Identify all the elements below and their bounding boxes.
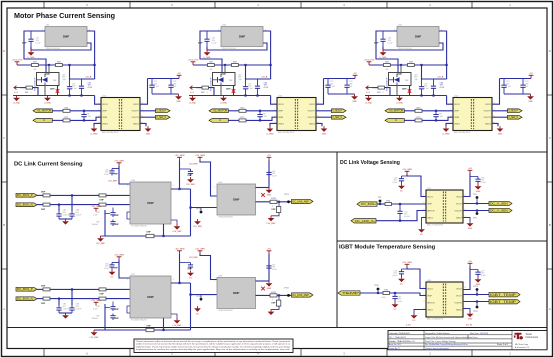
wire filter caps join row1	[59, 218, 72, 220]
op-amp U19 (DNP)	[214, 275, 258, 312]
net port U2_SEN_P	[332, 109, 347, 113]
section divider dclink-current right edge	[336, 152, 338, 328]
isolated amplifier U13	[274, 95, 318, 134]
svg-text:VOUT: VOUT	[456, 203, 463, 205]
wire VOUTN to port	[492, 116, 508, 118]
svg-text:+5V_SEN: +5V_SEN	[195, 155, 205, 157]
wire U11 pin1 left leg	[376, 31, 398, 73]
svg-text:VOUTN: VOUTN	[308, 117, 316, 119]
net port MOTOR_N1	[33, 119, 52, 123]
svg-text:VDD1: VDD1	[454, 104, 460, 106]
wire input N row1	[37, 204, 43, 206]
wire +5V rail right	[324, 78, 356, 80]
svg-text:SMBJ5339B-TP: SMBJ5339B-TP	[386, 77, 388, 91]
wire sense feed to rail	[33, 88, 39, 96]
svg-text:L5V_REF: L5V_REF	[267, 223, 276, 225]
isolated supply module U11 (DNP)	[394, 24, 441, 50]
svg-text:U_SEN_P: U_SEN_P	[509, 110, 519, 113]
svg-text:0: 0	[207, 92, 208, 94]
net port DC_LINK_V_SEN	[489, 201, 512, 205]
svg-text:DNP: DNP	[50, 89, 55, 91]
net port DC_LINK_V_SEN_N	[489, 208, 512, 212]
svg-text:1: 1	[274, 103, 275, 105]
wire opamp V+ stub row1	[256, 187, 270, 189]
ground +5V chain row1	[266, 188, 273, 197]
test point TP4	[473, 194, 478, 199]
ground U_GND under C32	[203, 50, 211, 59]
svg-text:4.7uF: 4.7uF	[88, 87, 94, 89]
power flag +VCC_FL2	[188, 60, 200, 65]
ground feedback row1	[267, 216, 276, 225]
svg-text:0.1uF: 0.1uF	[330, 86, 336, 88]
wire opamp out row1	[256, 201, 292, 203]
svg-text:DC_BUS_P: DC_BUS_P	[17, 194, 33, 197]
svg-text:DNP: DNP	[147, 326, 152, 328]
svg-text:DNP: DNP	[188, 175, 193, 177]
wire into opamp row2	[191, 294, 218, 296]
svg-text:L5V_REF: L5V_REF	[108, 181, 118, 183]
wire bottom rail	[365, 95, 447, 97]
wire R to VINP	[70, 110, 101, 112]
svg-text:0.1uF: 0.1uF	[86, 116, 92, 118]
svg-text:+5V_A: +5V_A	[85, 76, 92, 79]
svg-text:DNP: DNP	[147, 232, 152, 234]
ground under opamp in row2	[194, 306, 201, 315]
svg-text:GND: GND	[322, 134, 327, 136]
ground GND right caps	[351, 94, 358, 103]
value opamp bypass cap row2	[272, 265, 277, 271]
junction rail/caps	[244, 64, 246, 66]
svg-text:DNP: DNP	[22, 43, 27, 45]
test point TP21	[284, 194, 290, 203]
svg-text:Instruments: Instruments	[526, 336, 539, 339]
resistor R63 input P	[415, 107, 422, 112]
isolated supply module U9 (DNP)	[42, 24, 89, 50]
power flag +5V_SEN dclv	[402, 169, 412, 174]
svg-text:GND: GND	[498, 134, 503, 136]
svg-text:+5V: +5V	[177, 73, 181, 75]
junction bottom rail cap1	[420, 94, 422, 96]
svg-text:VINP: VINP	[427, 295, 432, 297]
power flag +5V dclv	[468, 168, 473, 173]
junction filter P row2	[71, 288, 73, 290]
svg-text:+5V: +5V	[267, 249, 271, 251]
ground L5V_REF row2	[90, 330, 99, 339]
junction amp drop row2	[162, 329, 164, 331]
svg-text:4.7uF: 4.7uF	[440, 87, 446, 89]
value C91	[86, 114, 92, 118]
resistor R72 input N	[239, 117, 246, 122]
resistor R101 gain P	[99, 194, 106, 197]
wire TP4 stub	[476, 198, 478, 204]
value C82	[398, 297, 404, 303]
wire D2 NC pin stub	[233, 86, 235, 96]
svg-text:U: U	[395, 119, 397, 122]
wire GND1 to ground	[446, 123, 453, 126]
capacitor C103 decoupling	[501, 79, 511, 95]
svg-text:AMC1300BDWVR: AMC1300BDWVR	[102, 131, 119, 134]
junction bus TVS tap U10	[224, 64, 226, 66]
ground DC GND1 igbt	[411, 313, 418, 322]
svg-text:U_SEN_P: U_SEN_P	[333, 110, 343, 113]
resistor R31 on rail	[32, 62, 39, 67]
net port DC_LINK_N row2	[16, 297, 37, 301]
capacitor C32 (DNP)	[204, 34, 209, 48]
capacitor C72	[255, 79, 260, 96]
junction rail/caps	[420, 64, 422, 66]
svg-text:L5V_REF: L5V_REF	[96, 243, 105, 245]
svg-text:+5V_SEN: +5V_SEN	[402, 169, 412, 171]
ground U_GND under U13	[266, 126, 274, 135]
svg-text:U_GND: U_GND	[203, 57, 211, 59]
junction bus TVS tap U9	[48, 64, 50, 66]
wire D2 anode to bottom rail	[220, 83, 222, 96]
capacitor Cref2 (DNP) row2	[110, 314, 115, 321]
wire TP20 stub	[377, 289, 379, 293]
svg-text:L5V_REF: L5V_REF	[186, 184, 195, 186]
junction opamp in row1	[189, 206, 191, 208]
ground under opamp in row1	[193, 219, 202, 228]
wire rail drop inline cap	[69, 65, 71, 80]
wire input P to R	[404, 110, 415, 112]
ground GND under C77	[475, 277, 482, 286]
resistor R41 on rail	[56, 62, 63, 67]
svg-text:VOUTP: VOUTP	[484, 111, 492, 113]
svg-text:VDD1: VDD1	[427, 196, 433, 198]
wire cap tap r2 row1	[180, 168, 191, 170]
svg-text:0.1uF: 0.1uF	[93, 308, 99, 310]
wire +5VA rail	[422, 78, 447, 80]
svg-text:U_GND: U_GND	[44, 103, 52, 105]
svg-text:GND2: GND2	[133, 123, 140, 125]
zener diode D1 box	[37, 73, 60, 86]
wire supply drop r2 row2	[179, 254, 181, 283]
resistor R71 input N	[63, 117, 70, 122]
net arrow U_V2 input flag	[190, 86, 196, 95]
test point TP20	[374, 285, 380, 290]
ground feedback row2	[268, 309, 275, 315]
capacitor C73	[431, 79, 436, 96]
wire DC_LINK_V to VINN	[376, 211, 426, 221]
svg-text:VINP: VINP	[278, 111, 283, 113]
iso amplifier U16 (DNP)	[127, 180, 173, 228]
ground GND under C81	[475, 184, 482, 193]
svg-text:and/or its licensors do not wa: and/or its licensors do not warrant that…	[136, 343, 290, 346]
ground GND GND2 igbt	[467, 312, 474, 321]
capacitor C62	[243, 80, 248, 96]
wire input N to R	[52, 119, 63, 121]
net port DC_LINK_P row1	[16, 193, 37, 197]
svg-text:Assy Var: 001: Assy Var: 001	[389, 343, 401, 346]
wire supply rail bus	[17, 64, 95, 66]
power flag +5V_SEN r2 row2	[175, 249, 185, 254]
wire feedback leg row1	[278, 202, 280, 207]
wire VDD2 up	[140, 79, 148, 105]
capacitor C86 row1	[69, 211, 74, 219]
svg-text:0.1uF: 0.1uF	[248, 88, 254, 90]
capacitor C84 row1	[56, 211, 61, 219]
ground GND under U14 right	[497, 126, 504, 135]
svg-text:VINP: VINP	[102, 111, 107, 113]
svg-text:GND: GND	[176, 101, 181, 103]
svg-text:0.1uF: 0.1uF	[481, 182, 487, 184]
svg-text:GND: GND	[267, 195, 272, 197]
capacitor C93 across inputs	[433, 111, 438, 121]
svg-text:DC Link Voltage Sensing: DC Link Voltage Sensing	[340, 160, 400, 166]
ground filter caps row1	[62, 219, 69, 225]
wire filter drop N row1	[58, 205, 60, 211]
power flag +5V_SEN row2a	[114, 255, 124, 260]
svg-text:VOUTN: VOUTN	[455, 210, 463, 212]
wire into amp N row2	[106, 298, 130, 300]
wire VOUTN to port	[316, 116, 332, 118]
junction opamp in row2	[189, 294, 191, 296]
wire U9 pin4 right leg	[87, 31, 95, 79]
svg-text:Orderable: TIDA-010025: Orderable: TIDA-010025	[389, 332, 410, 335]
test point TP22	[473, 306, 479, 313]
capacitor C101 decoupling	[149, 79, 159, 95]
svg-text:VDD2: VDD2	[309, 104, 315, 106]
svg-text:Number: TIDA-010025: Number: TIDA-010025	[389, 340, 408, 343]
svg-text:+5V_SEN: +5V_SEN	[195, 249, 205, 251]
wire TP5 stub	[476, 211, 478, 214]
svg-text:DNP: DNP	[41, 303, 46, 305]
svg-text:U_GND: U_GND	[27, 57, 35, 59]
svg-text:DNP: DNP	[233, 198, 239, 202]
svg-text:DC_LINK_AMP: DC_LINK_AMP	[293, 293, 309, 297]
svg-text:1: 1	[98, 103, 99, 105]
net arrow U_V3 input flag	[366, 86, 372, 95]
svg-text:U_GND: U_GND	[220, 103, 228, 105]
capacitor C82 igbt	[392, 293, 397, 302]
capacitor C31 (DNP)	[28, 34, 33, 48]
junction amp out row2	[178, 282, 180, 284]
ground U_GND under C33	[379, 50, 387, 59]
net port DC_LINK_V	[351, 219, 376, 223]
svg-text:+5V_SEN: +5V_SEN	[91, 300, 101, 302]
svg-text:DC_BUS_P: DC_BUS_P	[17, 288, 33, 291]
svg-text:DNP: DNP	[198, 43, 203, 45]
wire GND2 down	[140, 123, 146, 126]
svg-text:R53: R53	[377, 92, 380, 94]
wire filter drop P row1	[71, 195, 73, 211]
ground DC under C82	[392, 302, 399, 311]
resistor R81 (DNP)	[43, 194, 50, 197]
wire supply jog r3 row1	[200, 161, 217, 197]
wire ref bottom row2	[94, 329, 191, 331]
no-connect X D3	[408, 89, 412, 93]
wire TP22 stub	[476, 302, 478, 308]
svg-text:0.1uF: 0.1uF	[438, 116, 444, 118]
wire +5V drop row2	[268, 254, 270, 281]
svg-text:These instruments and/or its l: These instruments and/or its licensors d…	[136, 340, 290, 343]
svg-text:+5V_SEN: +5V_SEN	[114, 161, 124, 163]
svg-text:0.1uF: 0.1uF	[424, 88, 430, 90]
svg-text:0: 0	[272, 299, 273, 301]
wire +5V_SEN drop row1a	[119, 166, 130, 184]
value C33	[388, 38, 394, 45]
wire R to VINN	[70, 117, 101, 120]
svg-text:4: 4	[173, 185, 174, 187]
wire D1 anode to bottom rail	[44, 83, 46, 96]
svg-text:2: 2	[423, 202, 424, 204]
ground GND GND2 dclv	[467, 221, 474, 230]
svg-text:GND: GND	[146, 134, 151, 136]
svg-text:U: U	[219, 119, 221, 122]
svg-text:VDD2: VDD2	[133, 104, 139, 106]
wire GND1 to ground	[270, 123, 277, 126]
svg-text:IGBT_TEMP: IGBT_TEMP	[490, 293, 517, 297]
svg-text:DNP: DNP	[147, 295, 153, 299]
resistor R92 (DNP)	[43, 297, 50, 300]
resistor R131 out	[270, 198, 277, 203]
power flag +5V_SEN r3 row1	[195, 155, 205, 160]
svg-text:+VCC_FL1: +VCC_FL1	[12, 60, 24, 62]
svg-text:VOUT: VOUT	[456, 295, 463, 297]
wire cap tap igbt	[402, 268, 408, 270]
values filter caps row1	[63, 210, 83, 217]
net port TEMP_IN	[338, 291, 360, 295]
net arrow U_V1 input flag	[14, 86, 20, 95]
test point TP22	[284, 288, 290, 297]
wire sense feed to rail	[209, 88, 215, 96]
iso amplifier U17 (DNP)	[127, 274, 173, 322]
ground U_GND under C31	[27, 50, 35, 59]
wire filter drop N row2	[58, 299, 60, 305]
junction out row2	[278, 294, 280, 296]
wire cap tap dclv	[402, 175, 408, 177]
capacitor Cref2 (DNP) row1	[110, 220, 115, 227]
svg-text:VDD2: VDD2	[485, 104, 491, 106]
svg-text:U_V: U_V	[14, 92, 19, 94]
svg-text:U_V: U_V	[366, 92, 371, 94]
svg-text:AMC1311BDWVR: AMC1311BDWVR	[427, 224, 444, 227]
svg-text:File: FlexNetWeb Current&Volta: File: FlexNetWeb Current&VoltageSensing.…	[425, 343, 468, 346]
wire GND2 down dclv	[463, 218, 470, 222]
svg-text:GND1: GND1	[427, 309, 434, 311]
junction VINN cap	[83, 119, 85, 121]
svg-text:GND: GND	[267, 288, 272, 290]
power flag +5V_SEN igbt	[402, 262, 412, 267]
wire VDD2 up	[316, 79, 324, 105]
svg-text:DC_BUS_N: DC_BUS_N	[17, 298, 33, 301]
svg-text:VOUTP: VOUTP	[132, 111, 140, 113]
wire R to VINN	[422, 117, 453, 120]
wire input P row1	[37, 194, 43, 196]
ground L5V_REF row1	[96, 236, 105, 245]
svg-text:Mfr. Sheet Copy: Mfr. Sheet Copy	[515, 343, 528, 346]
capacitor bypass r2 (DNP) row1	[188, 169, 193, 176]
wire +5V rail right	[148, 78, 180, 80]
svg-text:L5V_REF: L5V_REF	[189, 163, 198, 165]
junction VINP cap	[259, 110, 261, 112]
svg-text:GND1: GND1	[427, 217, 434, 219]
svg-text:C: C	[549, 136, 551, 140]
wire GND1 to ground	[94, 123, 101, 126]
resistor R122 (DNP) ref	[146, 328, 154, 331]
junction TP20	[377, 292, 379, 294]
wire R to VINP	[246, 110, 277, 112]
capacitor C71	[79, 79, 84, 96]
net port MOTOR_P2	[209, 109, 228, 113]
junction bus right U9	[94, 64, 96, 66]
svg-text:U1_MOTOR: U1_MOTOR	[37, 110, 51, 113]
svg-text:DNP: DNP	[41, 209, 46, 211]
svg-text:U_GND: U_GND	[396, 103, 404, 105]
wire amp gnd stub row1	[171, 220, 177, 224]
wire +5V_SEN jog to VDD1 igbt	[407, 268, 426, 289]
wire into amp P row2	[106, 288, 130, 290]
svg-text:+5V: +5V	[468, 261, 472, 263]
wire supply rail bus	[369, 64, 447, 66]
value C31	[36, 38, 42, 45]
ground amp bottom row2	[173, 318, 182, 327]
disclaimer notice box	[134, 339, 293, 353]
svg-text:0.1uF: 0.1uF	[388, 42, 394, 44]
zener diode D2 box	[213, 73, 236, 86]
svg-text:0: 0	[387, 208, 388, 210]
wire amp refs stub row2	[127, 306, 130, 313]
wire input P to R	[228, 110, 239, 112]
ground stub bottom rail	[189, 96, 197, 105]
svg-text:L5V_REF: L5V_REF	[189, 257, 198, 259]
svg-text:U_SEN_P: U_SEN_P	[157, 110, 167, 113]
capacitor C111 decoupling	[168, 79, 177, 95]
svg-text:4: 4	[173, 279, 174, 281]
svg-text:D: D	[549, 49, 551, 53]
svg-text:DNP: DNP	[114, 268, 119, 270]
wire amp out row1	[171, 188, 191, 190]
wire tp stub row2	[200, 295, 202, 300]
feedback resistor R142 (DNP)	[272, 300, 281, 306]
svg-text:+5V_A: +5V_A	[437, 76, 444, 79]
wire cap tap right dclv	[470, 176, 478, 178]
net port U1_SEN_P	[156, 109, 171, 113]
power flag +5V_SEN row1a	[114, 161, 124, 166]
svg-text:VDD2: VDD2	[456, 196, 462, 198]
wire VDD2 up	[492, 79, 500, 105]
ground +5V chain row2	[266, 281, 273, 290]
capacitor Cref1 (DNP) row1	[110, 211, 115, 218]
wire GND2 down	[316, 123, 322, 126]
junction filter N row2	[58, 298, 60, 300]
wire amp bottom pin drop row1	[163, 224, 165, 236]
svg-text:TID #: TIDA-010025: TID #: TIDA-010025	[389, 336, 406, 339]
svg-text:GND: GND	[528, 101, 533, 103]
wire +5V to VDD2 igbt	[463, 267, 470, 290]
capacitor C91 across inputs	[81, 111, 86, 121]
resistor R52 sense feed	[202, 86, 209, 89]
wire caps gnd tie	[504, 93, 531, 95]
wire sense feed	[196, 87, 202, 89]
svg-text:GND1: GND1	[102, 123, 109, 125]
svg-text:U_V: U_V	[190, 92, 195, 94]
wire VOUTP to port	[140, 110, 156, 112]
wire cap C31 top tie	[24, 31, 31, 34]
svg-text:GND: GND	[468, 228, 473, 230]
svg-text:GND2: GND2	[485, 123, 492, 125]
title block table	[388, 331, 547, 350]
wire R to VINN	[246, 117, 277, 120]
power flag +5V block2	[353, 73, 358, 78]
value C79	[393, 178, 399, 184]
wire D3 anode to bottom rail	[396, 83, 398, 96]
svg-text:Rev E1: Rev E1	[466, 324, 472, 326]
capacitor C102 decoupling	[325, 79, 335, 95]
power flag +5V opamp row2	[267, 249, 272, 254]
svg-text:3: 3	[423, 209, 424, 211]
wire ref caps tie amp row2	[112, 302, 114, 305]
